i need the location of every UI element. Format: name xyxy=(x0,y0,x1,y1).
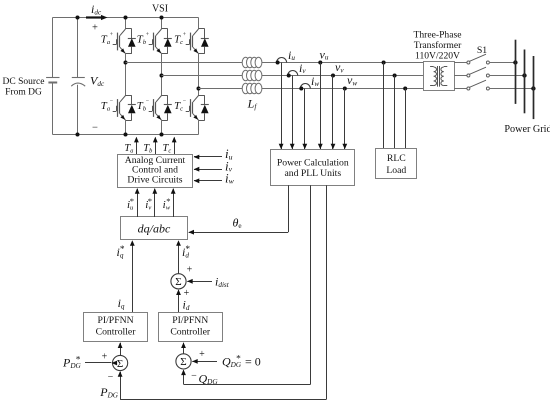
svg-text:−: − xyxy=(191,371,197,382)
svg-text:DC Source: DC Source xyxy=(3,77,45,87)
svg-text:Power Calculation: Power Calculation xyxy=(277,157,349,168)
svg-text:QDG* = 0: QDG* = 0 xyxy=(222,355,261,369)
svg-text:Drive Circuits: Drive Circuits xyxy=(127,174,182,185)
svg-text:Σ: Σ xyxy=(175,276,181,288)
svg-text:+: + xyxy=(199,349,205,360)
svg-text:Σ: Σ xyxy=(180,356,186,368)
svg-text:iv*: iv* xyxy=(145,196,152,211)
svg-text:+: + xyxy=(187,265,193,276)
svg-text:Σ: Σ xyxy=(117,358,123,370)
svg-text:Load: Load xyxy=(386,165,406,176)
svg-text:+: + xyxy=(92,22,98,33)
svg-text:iw*: iw* xyxy=(163,196,171,211)
svg-text:+: + xyxy=(102,352,108,363)
svg-text:From DG: From DG xyxy=(5,88,42,98)
svg-text:iu*: iu* xyxy=(127,196,134,211)
svg-text:−: − xyxy=(92,123,98,134)
svg-text:Transformer: Transformer xyxy=(414,40,462,51)
svg-text:PI/PFNN: PI/PFNN xyxy=(172,315,208,326)
svg-text:S1: S1 xyxy=(477,45,487,56)
svg-text:and PLL Units: and PLL Units xyxy=(284,168,341,179)
svg-text:dq/abc: dq/abc xyxy=(138,222,171,236)
svg-text:Power Grid: Power Grid xyxy=(504,124,550,135)
svg-text:Three-Phase: Three-Phase xyxy=(414,30,462,41)
svg-text:PI/PFNN: PI/PFNN xyxy=(98,315,134,326)
svg-text:VSI: VSI xyxy=(152,4,168,15)
svg-text:−: − xyxy=(108,372,114,383)
svg-text:Controller: Controller xyxy=(170,327,211,338)
svg-text:RLC: RLC xyxy=(387,153,406,164)
svg-text:110V/220V: 110V/220V xyxy=(415,51,460,62)
svg-text:Controller: Controller xyxy=(96,327,137,338)
